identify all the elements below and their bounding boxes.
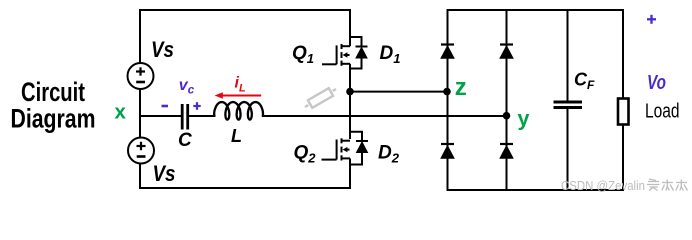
wire: load branch bottom <box>622 125 624 192</box>
diode top-left <box>441 45 454 59</box>
svg-text:y: y <box>518 107 530 131</box>
svg-text:Vs: Vs <box>153 161 176 186</box>
wire: CF branch bottom <box>567 108 569 191</box>
label plus (output) <box>647 15 656 24</box>
diode bottom-right <box>500 144 513 158</box>
svg-text:x: x <box>115 101 127 124</box>
wire: left branch top vertical <box>139 9 141 63</box>
wire: node x to Vs bottom <box>139 116 141 138</box>
wire: Vs top to node x <box>139 89 141 117</box>
svg-text:D1: D1 <box>380 43 401 66</box>
svg-text:iL: iL <box>235 75 246 95</box>
inductor L <box>214 102 263 120</box>
svg-text:D2: D2 <box>378 143 400 166</box>
watermark CJK glyphs <box>647 179 688 191</box>
svg-text:CSDN @Zevalin: CSDN @Zevalin <box>561 178 645 193</box>
watermark resistor (gray) <box>303 85 339 111</box>
svg-text:z: z <box>455 74 467 101</box>
wire: left bottom rail <box>139 187 351 189</box>
source Vs (top) <box>128 63 154 89</box>
svg-text:vc: vc <box>179 77 195 97</box>
source Vs (bottom) <box>128 138 154 164</box>
wire: bridge left branch <box>447 9 449 191</box>
capacitor C plates <box>182 104 188 130</box>
svg-text:Q1: Q1 <box>292 43 314 66</box>
svg-text:L: L <box>231 126 242 146</box>
label plus (cap) <box>193 102 200 110</box>
diode top-right <box>500 45 513 59</box>
node x junction wire <box>139 115 181 117</box>
svg-text:Diagram: Diagram <box>11 104 96 134</box>
svg-text:Q2: Q2 <box>294 143 317 166</box>
node: phase junction dot <box>346 88 354 96</box>
diode bottom-left <box>441 144 454 158</box>
diode D1 (body diode of Q1) <box>350 37 368 69</box>
wire: phase to node z <box>350 91 448 93</box>
svg-text:Vo: Vo <box>647 72 666 94</box>
svg-text:Circuit: Circuit <box>21 77 85 107</box>
node z dot <box>443 88 451 96</box>
watermark text CSDN <box>561 178 645 193</box>
wire: Vs bottom to rail <box>139 164 141 190</box>
node y dot <box>503 112 511 120</box>
diode D2 (body diode of Q2) <box>350 132 368 165</box>
wire: cap to inductor <box>187 115 216 117</box>
transistor Q1 <box>322 9 350 92</box>
svg-text:Vs: Vs <box>151 37 174 62</box>
transistor Q2 <box>322 138 351 189</box>
svg-text:C: C <box>178 130 192 151</box>
wire: bridge right branch <box>506 9 508 191</box>
wire: right bottom rail <box>447 189 625 191</box>
svg-text:CF: CF <box>574 70 595 93</box>
wire: inductor to node y <box>262 115 507 117</box>
title text "Circuit Diagram" <box>11 77 96 134</box>
svg-text:Load: Load <box>645 101 680 123</box>
wire: Q2 drain vertical <box>349 92 351 139</box>
wire: right top rail <box>447 9 625 11</box>
current arrow iL <box>215 92 262 99</box>
label minus (cap) <box>162 105 169 108</box>
wire: left top rail <box>139 9 351 11</box>
resistor load box <box>618 99 629 125</box>
wire: load branch top <box>622 9 624 98</box>
capacitor CF plates <box>554 102 583 108</box>
wire: CF branch top <box>567 9 569 102</box>
